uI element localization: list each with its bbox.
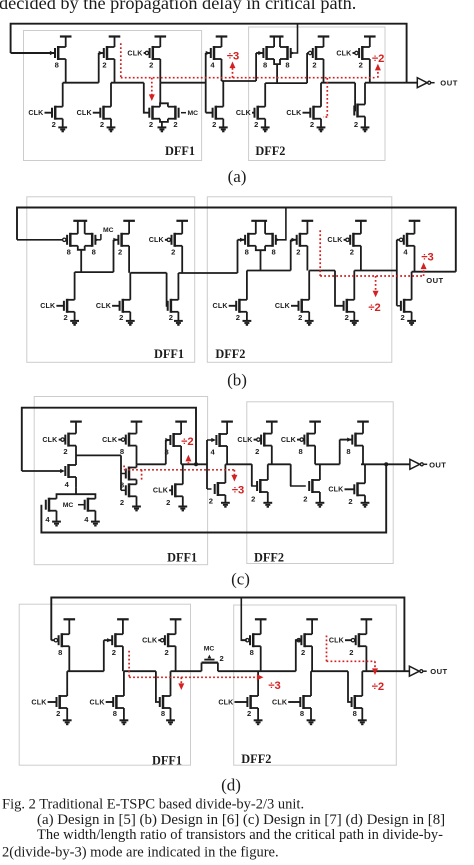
pmos P3 CLK W/L=2 (a): [152, 46, 155, 60]
pmos P2 W/L=2 (a): [106, 46, 109, 60]
svg-text:8: 8: [271, 247, 275, 256]
ground N2 (c): [136, 496, 138, 506]
wire P2 drain to node2 (a): [114, 59, 116, 83]
DFF1 box (c): [34, 397, 207, 565]
svg-text:CLK: CLK: [286, 109, 302, 117]
wire stage1 out (c): [76, 454, 121, 456]
svg-text:8: 8: [298, 447, 302, 456]
svg-text:÷3: ÷3: [227, 51, 239, 63]
feedback wire from OUT to P1 gate (d): [51, 598, 404, 672]
nmos N2 W/L=2 (c): [128, 483, 131, 497]
ground MC-right (c): [94, 511, 96, 522]
output buffer (c): [410, 459, 420, 469]
nmos N3 W/L=2 (b): [170, 299, 173, 313]
wire P1 drain to node1 (d): [68, 646, 70, 671]
pmos P6 cross-pair-right W/L=8 (a): [286, 46, 289, 60]
svg-text:CLK: CLK: [42, 436, 58, 444]
wire node5 riser to P7 gate (a): [306, 53, 308, 83]
svg-text:2: 2: [400, 313, 404, 322]
pmos P4 W/L=8 (c): [172, 433, 175, 447]
wire DFF2 pair right gate riser to feedback (b): [276, 208, 286, 240]
divide-by-3 arrow (b): [423, 269, 425, 276]
wire P7 drain (c): [314, 446, 316, 465]
wire drop to DFF2 N5 gate (c): [252, 464, 257, 486]
divide-by-2 branch arrow (d): [374, 661, 376, 668]
svg-text:2: 2: [119, 313, 123, 322]
wire stage5 node (a): [320, 83, 322, 107]
pmos P1 W/L=8 (a): [57, 46, 60, 60]
svg-text:8: 8: [353, 709, 357, 718]
DFF2 box (b): [207, 197, 391, 362]
pmos P4 W/L=8 (d): [252, 633, 255, 647]
VDD bar cross-pair (a): [270, 35, 284, 37]
pmos P7 W/L=2 (b): [299, 233, 302, 247]
svg-text:8: 8: [285, 61, 289, 70]
nmos N1 CLK W/L=2 (d): [58, 695, 61, 709]
wire node4 (b): [246, 271, 248, 300]
pmos P3 W/L=2 (b): [120, 233, 123, 247]
nmos N5 CLK W/L=8 (d): [302, 695, 305, 709]
svg-text:2: 2: [149, 120, 153, 129]
svg-text:÷3: ÷3: [421, 251, 433, 263]
svg-text:8: 8: [161, 709, 165, 718]
wire stage2 out (c): [181, 463, 207, 465]
critical path branch arrow into MC (a): [151, 78, 153, 95]
svg-text:2: 2: [296, 247, 300, 256]
ground N4 (d): [257, 708, 259, 720]
divide-by-3 branch arrow (c): [233, 470, 235, 476]
svg-text:2: 2: [52, 120, 56, 129]
nmos N4 W/L=2 (c): [217, 482, 220, 496]
cross-pair drain bridge to node5 (a): [274, 59, 280, 64]
mode-control nmos MC-left W/L=4 (c): [48, 498, 51, 512]
wire P4 drain to stage out (c): [180, 446, 182, 464]
svg-text:÷2: ÷2: [372, 53, 384, 65]
pmos P3 CLK W/L=2 (d): [167, 633, 170, 647]
svg-text:2: 2: [349, 648, 353, 657]
critical path red dotted (c): [123, 466, 125, 470]
pmos P5 W/L=2 (d): [303, 633, 306, 647]
svg-text:2: 2: [255, 447, 259, 456]
svg-text:2: 2: [100, 120, 104, 129]
pmos P8 CLK W/L=2 (a): [361, 46, 364, 60]
svg-text:The width/length ratio of tran: The width/length ratio of transistors an…: [37, 827, 443, 843]
wire OUT node (d): [361, 671, 363, 696]
svg-text:CLK: CLK: [218, 698, 234, 706]
svg-text:DFF1: DFF1: [154, 347, 184, 361]
svg-text:2: 2: [298, 313, 302, 322]
svg-text:÷2: ÷2: [181, 436, 193, 448]
ground N6 (d): [361, 708, 363, 720]
svg-text:2: 2: [303, 494, 307, 503]
pmos P1 cross-pair-left W/L=8 (b): [69, 233, 72, 247]
svg-text:CLK: CLK: [90, 698, 106, 706]
svg-text:8: 8: [92, 247, 96, 256]
wire N4 drain riser (d): [257, 671, 259, 696]
svg-text:2: 2: [63, 447, 67, 456]
pmos P4 CLK W/L=2 (b): [173, 233, 176, 247]
svg-text:CLK: CLK: [77, 109, 93, 117]
pmos P6 cross-pair-right W/L=8 (b): [271, 233, 274, 247]
ground N8 (a): [364, 117, 366, 128]
MC pair top bridge (c): [57, 494, 96, 499]
svg-text:2: 2: [63, 313, 67, 322]
svg-text:÷3: ÷3: [268, 680, 280, 692]
svg-text:MC: MC: [63, 502, 74, 509]
svg-text:(c): (c): [231, 570, 250, 589]
nmos N5 CLK W/L=2 (a): [256, 106, 259, 120]
pmos P2 W/L=2 (d): [114, 633, 117, 647]
svg-text:2: 2: [169, 313, 173, 322]
svg-text:2: 2: [56, 709, 60, 718]
wire drop to N6 gate (c): [291, 464, 306, 486]
nmos N6 CLK W/L=2 (b): [300, 299, 303, 313]
MC input stub (b): [95, 239, 101, 241]
wire P3 drain to node2b (d): [175, 646, 177, 671]
svg-text:(b): (b): [227, 371, 247, 390]
ground N3 (c): [182, 496, 184, 506]
wire node5 (a): [264, 83, 266, 107]
svg-text:8: 8: [245, 247, 249, 256]
svg-text:CLK: CLK: [40, 302, 56, 310]
svg-text:MC: MC: [204, 646, 215, 653]
wire node2 drop to N3 gate (d): [156, 671, 160, 702]
nmos N2 CLK W/L=8 (d): [115, 695, 118, 709]
divide-by-2 branch arrow (b): [375, 276, 377, 291]
feedback wire from OUT to input (a): [11, 24, 407, 83]
nmos N1 W/L=8 (c): [128, 467, 131, 481]
svg-text:DFF2: DFF2: [241, 752, 271, 766]
svg-text:OUT: OUT: [440, 78, 458, 87]
wire P8 drain to stage6 out (b): [360, 246, 362, 271]
svg-text:2: 2: [247, 709, 251, 718]
wire stage3 out to DFF2 (b): [177, 273, 179, 300]
pmos P9 W/L=4 (b): [406, 233, 409, 247]
VDD bar cross-pair (b): [73, 220, 87, 222]
DFF2 box (c): [247, 402, 393, 564]
wire DFF2 cross-pair right gate from feedback (a): [292, 24, 298, 53]
ground N4 (c): [224, 495, 226, 503]
mode-control nmos MC-right W/L=2 gate MC (a): [174, 106, 177, 120]
wire node1 (b): [74, 272, 76, 300]
critical path divide-by-3 red dotted (a): [120, 43, 122, 77]
svg-text:DFF1: DFF1: [167, 550, 197, 564]
DFF2 cross-pair drain bridge (b): [256, 246, 265, 250]
svg-text:8: 8: [346, 447, 350, 456]
ground N7 (c): [364, 495, 366, 503]
svg-text:Fig. 2 Traditional E-TSPC base: Fig. 2 Traditional E-TSPC based divide-b…: [2, 797, 304, 813]
MC terminals (d): [201, 663, 203, 672]
wire node3 (d): [218, 670, 296, 672]
nmos N4 W/L=2 (a): [215, 106, 218, 120]
svg-text:CLK: CLK: [281, 436, 297, 444]
pmos P6 CLK W/L=2 (d): [358, 633, 361, 647]
ground N1 (d): [66, 708, 68, 720]
ground N2 (b): [129, 312, 131, 321]
svg-text:2: 2: [310, 120, 314, 129]
svg-text:DFF1: DFF1: [165, 144, 195, 158]
svg-text:CLK: CLK: [236, 109, 252, 117]
svg-text:CLK: CLK: [272, 698, 288, 706]
divide-by-2 arrow (c): [187, 461, 189, 464]
svg-text:DFF1: DFF1: [152, 753, 182, 767]
wire riser to DFF2 pair gate (b): [237, 240, 239, 273]
wire inverter out (c): [224, 464, 226, 483]
svg-text:OUT: OUT: [426, 276, 443, 285]
pmos P7 W/L=2 (a): [315, 46, 318, 60]
wire node1 riser to P3 gate (b): [113, 240, 115, 272]
wire drop to N1/N2 gates (c): [120, 455, 122, 490]
wire node3 to stage3 gates (a): [160, 82, 205, 84]
critical path divide-by-2 branch (a): [326, 78, 328, 117]
wire node2 drop to N3 gate (b): [167, 273, 168, 306]
svg-text:CLK: CLK: [237, 436, 253, 444]
VDD bar DFF2 cross-pair (b): [251, 220, 267, 222]
pmos P6 CLK W/L=2 (c): [263, 433, 266, 447]
wire node1 (d): [66, 671, 68, 696]
ground MC pair (a): [161, 122, 163, 128]
DFF1 box (a): [24, 31, 202, 161]
svg-text:8: 8: [55, 61, 59, 70]
wire P4 drain to node4 (a): [221, 59, 223, 81]
red stub into N3 (c): [141, 470, 143, 481]
wire OUT node (c): [364, 464, 366, 483]
MC pair top bridge to node3 (a): [160, 103, 168, 106]
critical path red dotted DFF1 (d): [128, 651, 130, 678]
wire P3 drain to node2 (b): [128, 246, 130, 273]
svg-text:8: 8: [300, 709, 304, 718]
svg-text:2: 2: [212, 120, 216, 129]
svg-text:2: 2: [102, 61, 106, 70]
svg-text:2: 2: [220, 654, 224, 663]
wire node2 (d): [123, 671, 125, 696]
output buffer (a): [417, 78, 427, 88]
svg-text:÷2: ÷2: [368, 302, 380, 314]
svg-text:OUT: OUT: [430, 667, 447, 676]
nmos N2 CLK W/L=2 (a): [102, 106, 105, 120]
svg-text:8: 8: [263, 61, 267, 70]
svg-text:DFF2: DFF2: [254, 550, 284, 564]
feedback top wire (c): [22, 408, 196, 471]
svg-text:2: 2: [354, 120, 358, 129]
wire node4 riser to P7 gate (b): [290, 240, 292, 271]
svg-text:÷2: ÷2: [372, 681, 384, 693]
mode-control nmos MC series W/L=2 (d): [202, 661, 218, 663]
ground N2 (a): [110, 119, 112, 128]
svg-text:2: 2: [120, 498, 124, 507]
wire P6 drain (c): [271, 446, 273, 465]
ground N3 (b): [177, 312, 179, 321]
divide-by-2 arrow (a): [377, 70, 379, 78]
critical path red dotted DFF2 (d): [326, 636, 328, 662]
svg-text:CLK: CLK: [275, 302, 291, 310]
svg-text:2: 2: [348, 497, 352, 506]
svg-text:2: 2: [171, 247, 175, 256]
mode-control nmos MC-right W/L=4 (c): [87, 498, 90, 512]
nmos N6 CLK W/L=2 (a): [312, 106, 315, 120]
svg-text:CLK: CLK: [149, 236, 165, 244]
wire node4 (a): [222, 81, 224, 107]
svg-text:CLK: CLK: [102, 436, 118, 444]
nmos N7 CLK W/L=2 (c): [356, 482, 359, 496]
ground N1 (b): [74, 312, 76, 321]
wire P5 drain to node4 (d): [311, 646, 313, 671]
wire P4 gate riser to feedback (d): [241, 598, 247, 641]
svg-text:2: 2: [166, 498, 170, 507]
svg-text:8: 8: [250, 648, 254, 657]
wire node1 riser to P2 gate (a): [98, 53, 100, 83]
wire node5 (b): [308, 271, 310, 300]
svg-text:MC: MC: [103, 227, 114, 234]
wire P1 drain to node1 (a): [65, 59, 67, 83]
wire P7 drain to node5 (b): [306, 246, 308, 271]
pmos P7 CLK W/L=8 (c): [306, 433, 309, 447]
wire node4 (d): [310, 671, 312, 696]
svg-text:8: 8: [67, 247, 71, 256]
pmos P1 CLK W/L=2 (c): [67, 433, 70, 447]
svg-text:OUT: OUT: [429, 460, 446, 469]
nmos N8 W/L=2 (a): [356, 104, 359, 118]
svg-text:2: 2: [209, 497, 213, 506]
ground N5 (b): [246, 312, 248, 321]
wire N1/N2 stack (c): [136, 464, 138, 467]
svg-text:8: 8: [164, 448, 168, 457]
MC pair bottom bridge (a): [160, 119, 168, 122]
svg-text:2: 2: [359, 61, 363, 70]
divide-by-3 arrow (a): [232, 68, 234, 78]
ground N6 (a): [320, 119, 322, 128]
wire riser to P8 gate (c): [339, 440, 341, 465]
pmos P4 W/L=4 (a): [213, 46, 216, 60]
wire node3 riser to P5 gate (d): [296, 640, 301, 671]
ground N5 (d): [310, 708, 312, 720]
ground N7 (b): [353, 312, 355, 321]
pmos P5 W/L=4 (c): [218, 433, 221, 447]
svg-text:(a): (a): [228, 167, 247, 186]
svg-text:DFF2: DFF2: [215, 347, 245, 361]
svg-text:2(divide-by-3) mode are indica: 2(divide-by-3) mode are indicated in the…: [2, 845, 279, 861]
svg-text:CLK: CLK: [153, 487, 169, 495]
svg-text:2: 2: [254, 120, 258, 129]
nmos N1 CLK W/L=2 (a): [54, 106, 57, 120]
wire node2 drop to MC-left gate (a): [144, 83, 150, 113]
svg-text:CLK: CLK: [336, 49, 352, 57]
wire P6 drain to OUT node (d): [365, 646, 367, 671]
svg-text:2: 2: [118, 247, 122, 256]
svg-text:÷3: ÷3: [232, 484, 244, 496]
wire P9 drain to OUT (b): [414, 246, 416, 272]
svg-text:CLK: CLK: [96, 302, 112, 310]
nmos N6 W/L=8 (d): [354, 695, 357, 709]
ground N5 (c): [267, 492, 269, 503]
wire P1 drain (c): [75, 446, 77, 465]
wire node2 (b): [129, 273, 131, 300]
pmos P2 W/L=4 feedback-gated (c): [67, 464, 70, 478]
svg-text:2: 2: [350, 247, 354, 256]
svg-text:2: 2: [345, 313, 349, 322]
svg-text:DFF2: DFF2: [255, 144, 285, 158]
pmos P5 cross-pair-left W/L=8 (b): [247, 233, 250, 247]
wire node4 drop to N6 gate (d): [348, 671, 352, 702]
svg-text:CLK: CLK: [31, 698, 47, 706]
wire DFF2 stage2 out (c): [319, 464, 321, 480]
svg-text:8: 8: [120, 480, 124, 489]
wire node1 riser to P2 gate (d): [103, 640, 105, 671]
wire nodeB to P4 gate riser (c): [137, 463, 166, 465]
nmos N9 W/L=2 (b): [403, 299, 406, 313]
svg-text:CLK: CLK: [28, 109, 44, 117]
feedback bottom wire from OUT to MC gate (c): [41, 464, 386, 532]
ground N2 (d): [123, 708, 125, 720]
pmos P3 CLK W/L=8 (c): [128, 433, 131, 447]
wire OUT node (b): [411, 272, 413, 300]
wire riser/drop to inverter gates (c): [206, 440, 208, 489]
wire DFF2 stage1 out (c): [267, 464, 269, 480]
pmos P5 cross-pair-left W/L=8 (a): [265, 46, 268, 60]
DFF2 box (d): [234, 605, 397, 765]
svg-text:MC: MC: [188, 110, 199, 117]
svg-text:CLK: CLK: [213, 302, 229, 310]
svg-text:CLK: CLK: [127, 49, 143, 57]
svg-text:decided by the propagation del: decided by the propagation delay in crit…: [0, 0, 356, 13]
nmos N5 CLK W/L=2 (b): [238, 299, 241, 313]
mode-control nmos MC-left W/L=2 (a): [151, 106, 154, 120]
svg-text:2: 2: [164, 648, 168, 657]
ground N1 (a): [62, 119, 64, 128]
wire node1 (a): [62, 83, 64, 107]
svg-text:2: 2: [236, 313, 240, 322]
wire P5 drain to OUT node (c): [226, 446, 228, 464]
wire P2 drain to MC bridge (c): [75, 477, 77, 488]
DFF2 box (a): [249, 27, 385, 161]
ground N5 (a): [264, 119, 266, 128]
svg-text:2: 2: [149, 61, 153, 70]
wire P8 drain to OUT node (a): [369, 59, 371, 83]
svg-text:CLK: CLK: [328, 486, 344, 494]
ground N4 (a): [222, 119, 224, 128]
ground N3 (d): [170, 708, 172, 720]
svg-text:2: 2: [301, 648, 305, 657]
pmos P1 W/L=8 (d): [61, 633, 64, 647]
nmos N3 W/L=8 (d): [162, 695, 165, 709]
feedback wire from OUT to DFF1 pair gate (b): [17, 208, 456, 272]
wire stage6 out to output stage gates (b): [353, 271, 355, 300]
wire OUT node (a): [364, 83, 366, 105]
ground MC-left (c): [56, 511, 58, 522]
nmos N7 W/L=2 (b): [346, 299, 349, 313]
svg-text:2: 2: [312, 61, 316, 70]
wire P2 drain to node2 (d): [122, 646, 124, 671]
svg-text:2: 2: [173, 120, 177, 129]
wire P3 drain down to node3 (a): [159, 59, 161, 83]
svg-text:8: 8: [113, 709, 117, 718]
wire P4 drain to stage3 out (b): [181, 246, 183, 273]
wire P3 drain to nodeB (c): [136, 446, 138, 465]
wire node2b to MC (d): [170, 671, 172, 696]
svg-text:(a) Design in [5] (b) Design i: (a) Design in [5] (b) Design in [6] (c) …: [37, 812, 445, 828]
nmos N5 W/L=2 (c): [259, 479, 262, 493]
nmos N3 CLK W/L=2 (c): [174, 483, 177, 497]
wire node2 (a): [110, 83, 112, 107]
nmos N2 CLK W/L=2 (b): [122, 299, 125, 313]
svg-text:2: 2: [251, 494, 255, 503]
output buffer (d): [409, 666, 419, 676]
pmos P8 CLK W/L=2 (b): [352, 233, 355, 247]
ground N9 (b): [411, 312, 413, 321]
wire P4 drain to node3 (d): [260, 646, 262, 671]
wire N3 drain riser (c): [182, 464, 184, 484]
pmos P2 cross-pair-right W/L=8 MC gate (b): [91, 233, 94, 247]
